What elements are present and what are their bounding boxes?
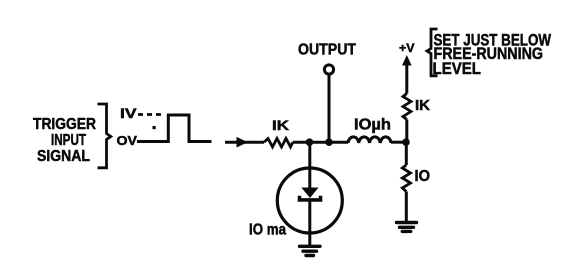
svg-text:LEVEL: LEVEL [433,60,482,78]
svg-text:INPUT: INPUT [51,132,86,149]
svg-text:OUTPUT: OUTPUT [298,42,356,59]
svg-text:OV: OV [117,133,138,148]
svg-text:IK: IK [272,117,289,133]
svg-text:IOµh: IOµh [354,117,391,134]
svg-text:IO: IO [415,168,431,185]
svg-text:IO ma: IO ma [249,222,286,239]
svg-text:TRIGGER: TRIGGER [33,116,96,133]
svg-text:+V: +V [399,41,415,55]
svg-text:IK: IK [415,98,431,114]
svg-text:IV: IV [120,106,137,121]
svg-text:SIGNAL: SIGNAL [37,148,90,165]
